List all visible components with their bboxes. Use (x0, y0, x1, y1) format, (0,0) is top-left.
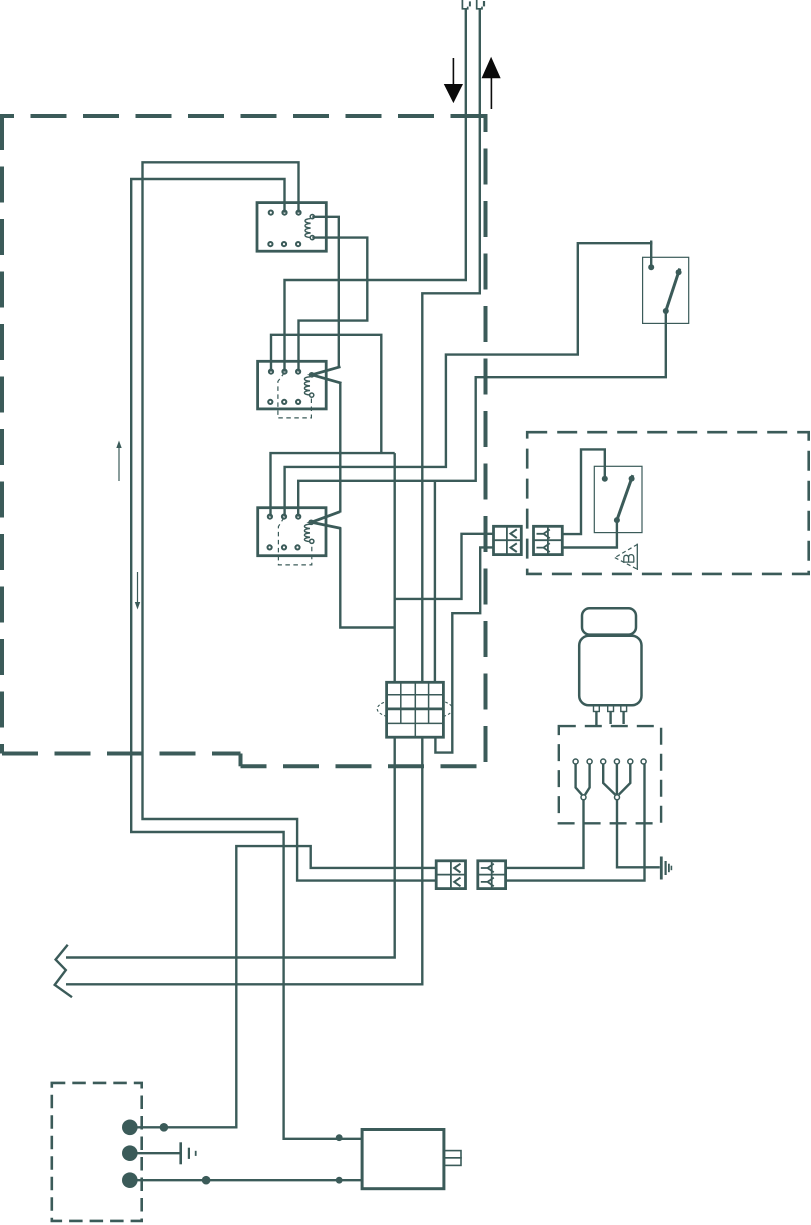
connector pair H (left half) (494, 526, 522, 554)
wire: pair M right half upper to fuse box Y-junction stem (506, 800, 584, 868)
arrow down (feed direction) (445, 58, 463, 102)
fuse box pins and junctions (573, 759, 646, 800)
relay K2 (258, 361, 327, 418)
battery terminal 2 (122, 1145, 138, 1161)
switch S1 (643, 241, 689, 324)
wire: relay K1 coil bottom to relay K2 pin3 (299, 238, 368, 372)
motor M1 body (579, 636, 641, 706)
connector pair M (left half) (436, 861, 465, 889)
wire: splice grid col3 bottom down to break wire 2 (66, 737, 422, 984)
connector pair H (right half) (534, 526, 563, 554)
wire: relay K1 coil top, chain with actuating arrows of K2 and K3, to grid col1 (312, 217, 394, 628)
wire: battery terminal 1 up and over to connector pair M upper row (137, 846, 436, 1127)
wires: motor pins into fuse box (596, 712, 623, 727)
wire: grid col1 riser (h1 junction to grid top) (394, 453, 396, 682)
wire B: relay K1 pin2 riser, left rail, to motor M1 upper lead (131, 179, 362, 1139)
junction dot on motor upper lead (336, 1134, 343, 1141)
wire: J1 down to relay K2 pin2 (285, 10, 466, 372)
relay K1 (257, 203, 326, 252)
battery dashed box (52, 1083, 142, 1221)
wire A: relay K1 pin3 riser, left rail, to connector pair M lower row (143, 162, 437, 880)
wire: middle trident junction (603, 764, 630, 795)
actuating arrow into relay K3 coil (311, 512, 341, 529)
motor M1 pins (594, 705, 627, 711)
wire: branch from lever rail down to splice grid col4 top (434, 481, 436, 683)
motor M1 solenoid cap (582, 608, 636, 634)
annotation arrow down (inside left rails) (135, 572, 140, 610)
wire: J2 down, jog, to splice grid col3 top (422, 10, 480, 683)
wire: connector pair H lower row to grid col4 bottom (435, 547, 493, 752)
connector J1 (top left terminal) (462, 0, 470, 9)
wire: relay K2 pin1 riser to h1 rail (271, 335, 381, 453)
junction dot on motor lower lead (336, 1177, 343, 1184)
wire h1: relay K3 pin1 riser to grid col1 (271, 453, 395, 516)
wire: battery terminal 3 to motor M1 lower lead (137, 1179, 362, 1181)
junction dot on terminal 3 wire (202, 1176, 211, 1185)
junction dot on terminal 1 wire (160, 1123, 169, 1132)
connector pair M (right half) (478, 861, 506, 889)
motor M1 (starter) body bottom right (362, 1130, 461, 1189)
annotation arrow up (inside left rails) (116, 441, 121, 482)
dashed fuse/junction box 3 (559, 726, 661, 823)
dashed enclosure border (main harness box) (2, 114, 488, 766)
dashed box 2 (accessory switch unit) (527, 432, 809, 574)
wire: switch S1 pivot feed down to relay K3 pin2 (285, 243, 652, 516)
warning triangle B (615, 544, 638, 570)
chassis ground G2 (181, 1142, 196, 1164)
actuating arrow into relay K2 coil (312, 367, 342, 384)
wire: left Y junction (576, 764, 590, 795)
splice grid connector (377, 682, 453, 737)
wire: fuse box trident junction down to chassis ground G1 (617, 800, 660, 868)
connector J2 (top right terminal) (477, 0, 484, 9)
chassis ground G1 (661, 857, 671, 880)
battery terminal 3 (122, 1172, 138, 1188)
relay K3 (258, 508, 326, 565)
wire: switch S1 lever out, down and left to relay K3 pin3 (298, 311, 666, 517)
wire: break symbol zigzag (55, 945, 72, 997)
wire: grid col1 bottom down to break wire 1 (66, 737, 395, 957)
wire: connector pair H upper row to grid col1 rail (395, 534, 494, 599)
wire: battery terminal 2 to chassis ground G2 (137, 1152, 180, 1154)
arrow up (return direction) (482, 58, 500, 109)
wire: switch S2 lever down to pair H right lower row (562, 520, 617, 547)
switch S2 (594, 466, 642, 532)
battery terminal 1 (122, 1120, 138, 1136)
wire: pair M right half lower to fuse box pin 6 (506, 764, 645, 881)
wire: pair H right half to switch S2 pivot (562, 449, 605, 534)
